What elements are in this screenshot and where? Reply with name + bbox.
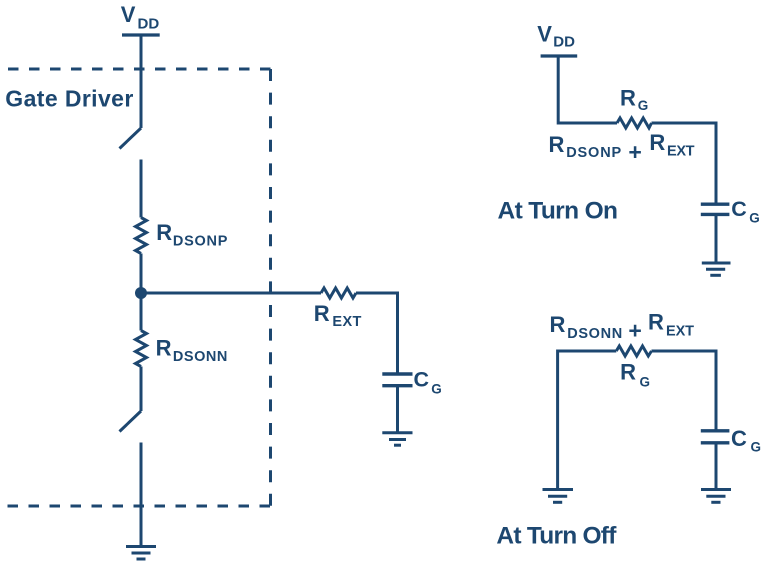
ground (left CG) (382, 433, 412, 445)
switch S2 (low-side) (120, 411, 142, 432)
resistor RG (turn-off) (616, 346, 651, 356)
wire capacitor CG to ground (left) (396, 386, 399, 433)
wire RG to capacitor CG (turn-off) (652, 351, 717, 431)
gate driver dashed boundary box top edge (8, 68, 271, 71)
wire switch S2 to ground (140, 443, 143, 547)
gate driver dashed boundary box bottom edge (8, 505, 272, 508)
wire RDSONP to node (140, 254, 143, 331)
wire left leg to RG (turn-off) (558, 351, 617, 489)
svg-text:At Turn On: At Turn On (498, 197, 619, 224)
wire capacitor CG to ground (turn-on) (715, 214, 718, 263)
resistor REXT (321, 288, 356, 298)
svg-text:Gate Driver: Gate Driver (5, 85, 133, 111)
switch S1 (high-side) (120, 128, 142, 149)
node gate output junction (135, 287, 147, 299)
capacitor CG (turn-on) (701, 204, 730, 214)
power VDD (turn-on circuit) bar (541, 54, 578, 57)
resistor RDSONP (136, 218, 147, 254)
ground (left circuit) (126, 547, 156, 560)
wire VDD down and across to RG (turn-on) (558, 56, 617, 123)
wire capacitor CG to ground (turn-off) (715, 443, 718, 489)
wire node to REXT (141, 292, 321, 295)
ground (turn-on) (702, 263, 731, 275)
wire REXT to capacitor CG (left) (356, 293, 398, 373)
resistor RDSONN (136, 331, 147, 367)
wire RDSONN to switch S2 (140, 367, 143, 412)
wire RG to capacitor CG (turn-on) (652, 123, 717, 204)
resistor RG (turn-on) (617, 118, 652, 128)
wire VDD to switch S1 (140, 35, 143, 128)
power VDD (left) bar (122, 33, 160, 36)
wire switch S1 to RDSONP (140, 160, 143, 218)
svg-text:At Turn Off: At Turn Off (496, 523, 617, 550)
gate driver dashed boundary box right edge (269, 69, 272, 506)
capacitor CG (left) (382, 374, 412, 386)
ground (turn-off left) (543, 490, 574, 503)
capacitor CG (turn-off) (701, 431, 730, 443)
ground (turn-off right) (701, 490, 731, 503)
